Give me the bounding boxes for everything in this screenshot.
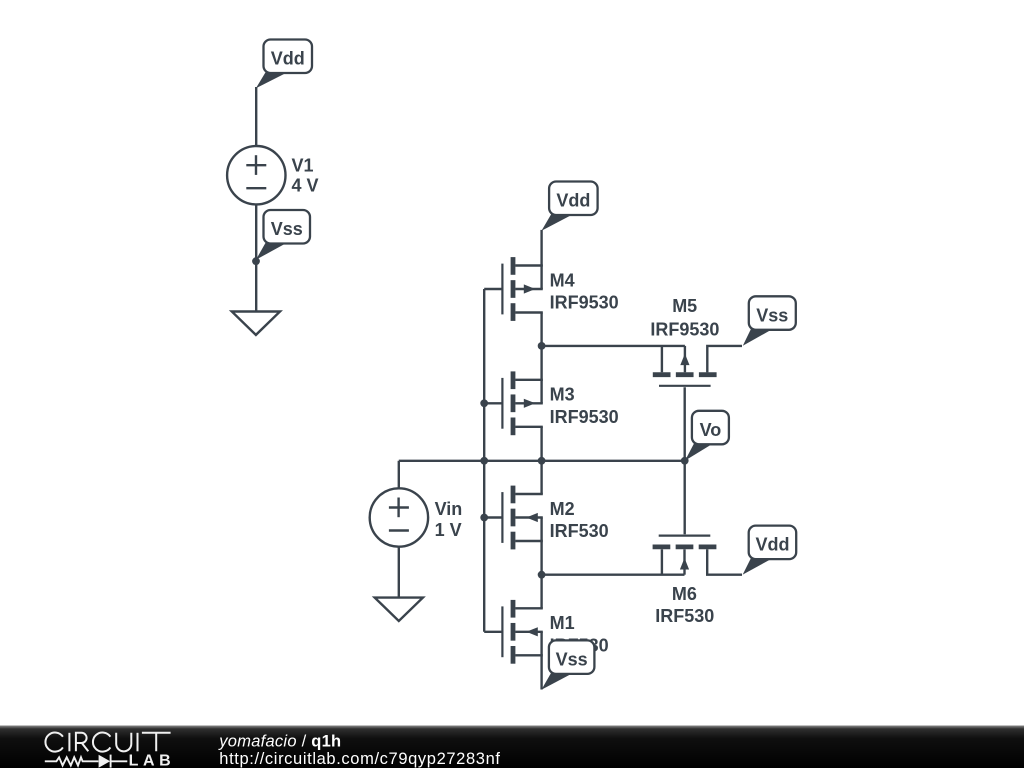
node: main column / input wire (538, 457, 546, 465)
svg-text:IRF530: IRF530 (550, 521, 609, 541)
wire: M2 source to M1 drain (540, 541, 542, 609)
svg-text:Vss: Vss (556, 649, 588, 669)
wire: Vdd flag to M4 drain (540, 230, 542, 266)
wire: M4/M3 node to M5 source+body (542, 345, 685, 347)
svg-text:M6: M6 (672, 584, 697, 604)
wire: M6 drain down and right to Vdd flag (707, 549, 742, 575)
wire: input bus horizontal (399, 460, 685, 462)
transistor M1 NMOS (484, 600, 543, 664)
transistor M5 PMOS (rotated, gate below) (653, 346, 717, 386)
net flag Vss (right of M5) (743, 296, 796, 346)
svg-text:http://circuitlab.com/c79qyp27: http://circuitlab.com/c79qyp27283nf (219, 750, 500, 768)
node: gate bus / M3 gate (480, 399, 488, 407)
svg-text:V1: V1 (292, 156, 314, 176)
node: main column / M5 wire (538, 342, 546, 350)
svg-text:M1: M1 (550, 613, 575, 633)
wire: M3 source to M2 drain (540, 427, 542, 494)
svg-text:IRF530: IRF530 (655, 606, 714, 626)
net flag Vo (685, 411, 729, 461)
node: gate bus / input wire (480, 457, 488, 465)
svg-text:IRF9530: IRF9530 (550, 407, 619, 427)
net flag Vdd (right of M6) (743, 526, 797, 575)
svg-text:IRF9530: IRF9530 (550, 293, 619, 313)
voltage source Vin 1V (370, 488, 428, 546)
net flag Vss (below M1) (541, 640, 594, 689)
svg-text:1 V: 1 V (435, 520, 462, 540)
CircuitLab logo: CIRCUIT (45, 732, 170, 751)
wire: V1 bottom to ground (255, 204, 257, 311)
svg-text:IRF9530: IRF9530 (650, 319, 719, 339)
transistor M3 PMOS (484, 371, 543, 435)
svg-text:Vo: Vo (700, 420, 722, 440)
wire: M2/M1 node to M6 source+body (542, 574, 685, 576)
wire: Vin bottom to ground (398, 547, 400, 598)
node: main column / M6 wire (538, 571, 546, 579)
svg-text:yomafacio / q1h: yomafacio / q1h (218, 733, 341, 751)
CircuitLab logo: resistor-diode squiggle (45, 755, 128, 768)
svg-text:Vss: Vss (756, 305, 788, 325)
wire: M1 source to Vss flag (540, 655, 542, 689)
ground (below V1) (232, 312, 280, 335)
net flag Vdd (top left, above V1) (256, 40, 312, 89)
transistor M2 NMOS (484, 486, 543, 550)
node Vss junction dot on V1 bottom wire (252, 257, 260, 265)
wire: Vin top lead up and to input bus (398, 461, 400, 489)
svg-text:Vss: Vss (271, 219, 303, 239)
svg-text:Vin: Vin (435, 499, 463, 519)
svg-text:Vdd: Vdd (755, 535, 789, 555)
wire: M4 source to M3 drain (540, 313, 542, 381)
transistor M4 PMOS (484, 257, 543, 321)
node Vo (681, 457, 689, 465)
svg-text:Vdd: Vdd (271, 49, 305, 69)
node: gate bus / M2 gate (480, 514, 488, 522)
svg-text:LAB: LAB (129, 753, 176, 768)
svg-text:M5: M5 (672, 296, 697, 316)
wire: Vdd flag to V1 top (255, 87, 257, 146)
net flag Vss (at V1 bottom) (256, 210, 310, 260)
transistor M6 NMOS (rotated, gate above) (653, 536, 717, 575)
wire: Vo node down to M6 gate (684, 461, 686, 534)
net flag Vdd (above M4) (542, 182, 598, 231)
svg-text:4 V: 4 V (292, 175, 319, 195)
svg-text:M2: M2 (550, 499, 575, 519)
wire: M5 drain up and right to Vss flag (707, 346, 742, 373)
svg-text:M4: M4 (550, 270, 575, 290)
svg-text:M3: M3 (550, 385, 575, 405)
voltage source V1 4V (227, 146, 285, 204)
wire: gate bus (all four gates) (483, 289, 485, 632)
ground (below Vin) (375, 598, 423, 621)
wire: Vo node up to M5 gate (684, 387, 686, 461)
svg-text:Vdd: Vdd (556, 191, 590, 211)
